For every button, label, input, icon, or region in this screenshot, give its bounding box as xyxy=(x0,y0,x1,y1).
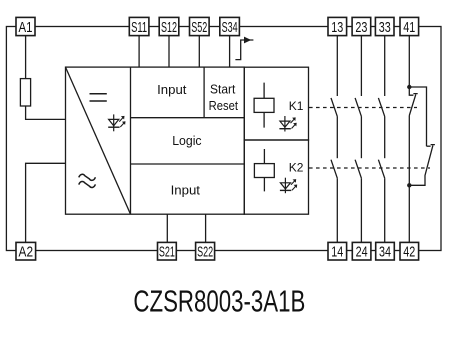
LED indicator K2 xyxy=(280,178,297,194)
fuse F1 xyxy=(20,79,30,106)
svg-text:S34: S34 xyxy=(222,20,238,36)
wire 33 down xyxy=(384,36,386,97)
NC contact K1 arm xyxy=(409,94,417,116)
terminal 23 xyxy=(352,17,371,36)
contact column 41-42 (NC) xyxy=(409,36,435,243)
terminal A1 xyxy=(16,17,35,36)
svg-text:A2: A2 xyxy=(19,245,34,261)
terminal S12 xyxy=(159,17,179,36)
terminal A2 xyxy=(16,242,36,260)
terminal 13 xyxy=(328,17,347,36)
svg-text:CZSR8003-3A1B: CZSR8003-3A1B xyxy=(133,285,305,319)
wire junction to 42 xyxy=(408,185,410,242)
contact column 23-24 xyxy=(355,36,361,243)
wire input to S21 xyxy=(166,214,168,242)
svg-text:Logic: Logic xyxy=(172,134,201,148)
LED indicator power supply xyxy=(108,114,125,131)
wire input to S22 xyxy=(205,214,207,242)
AC symbol xyxy=(79,174,96,187)
svg-text:24: 24 xyxy=(356,245,368,261)
svg-text:A1: A1 xyxy=(19,20,33,36)
contact K2 (13-14) xyxy=(331,160,337,179)
wire between contacts xyxy=(360,116,362,158)
wire S34 to start reset xyxy=(229,36,231,68)
wire power supply to A2 xyxy=(26,163,66,242)
power supply right divider xyxy=(130,67,132,214)
wire between contacts xyxy=(336,116,338,158)
branch wire to K2 NC xyxy=(409,87,426,146)
wire between contacts xyxy=(384,116,386,158)
contact column 13-14 xyxy=(331,36,337,243)
terminal 42 xyxy=(400,242,419,260)
svg-text:S11: S11 xyxy=(131,20,147,36)
wire to 14 xyxy=(336,178,338,242)
svg-text:Input: Input xyxy=(171,184,201,198)
wire 41 down xyxy=(408,36,410,88)
NC contact K2 seat xyxy=(427,145,431,147)
svg-text:S52: S52 xyxy=(191,20,207,36)
contact K1 (13-14) xyxy=(331,98,337,117)
wire S52 to start reset xyxy=(198,36,200,68)
device outline xyxy=(6,27,441,251)
DC symbol xyxy=(90,94,107,101)
contact column 33-34 xyxy=(378,36,384,243)
wire S11 to input xyxy=(138,36,140,68)
svg-text:14: 14 xyxy=(331,245,343,261)
wire 23 down xyxy=(360,36,362,97)
svg-text:K2: K2 xyxy=(289,161,304,175)
wire 13 down xyxy=(336,36,338,97)
svg-text:42: 42 xyxy=(403,245,415,261)
terminal 41 xyxy=(400,17,419,36)
wire A1 to power supply xyxy=(26,36,66,120)
svg-text:33: 33 xyxy=(379,20,391,36)
terminal S34 xyxy=(220,17,240,36)
junction dot upper xyxy=(407,85,411,89)
NC contact K1 seat xyxy=(409,87,413,95)
relay K2 box xyxy=(244,140,308,214)
terminal S21 xyxy=(158,242,177,260)
svg-text:23: 23 xyxy=(355,20,367,36)
contact K2 (23-24) xyxy=(355,160,361,179)
wire to 34 xyxy=(384,178,386,242)
junction dot lower xyxy=(407,183,411,187)
terminal S52 xyxy=(190,17,210,36)
svg-text:S12: S12 xyxy=(161,20,177,36)
K1 linkage dashed line xyxy=(309,107,417,109)
contact K1 (33-34) xyxy=(378,98,384,117)
terminal S11 xyxy=(129,17,149,36)
divider input/logic xyxy=(131,117,245,119)
svg-text:S21: S21 xyxy=(159,245,175,261)
divider logic/input xyxy=(131,163,245,165)
svg-text:Reset: Reset xyxy=(209,99,239,113)
main module box xyxy=(66,67,245,214)
divider input/start-reset xyxy=(203,67,205,118)
NC contact K2 arm xyxy=(409,145,435,186)
terminal 34 xyxy=(376,242,395,260)
LED indicator K1 xyxy=(279,116,296,132)
svg-text:41: 41 xyxy=(403,20,415,36)
terminal 33 xyxy=(375,17,394,36)
svg-text:13: 13 xyxy=(331,20,343,36)
coil K1 xyxy=(254,83,274,128)
coil K2 xyxy=(254,149,274,191)
relay K1 box xyxy=(244,67,308,140)
K2 linkage dashed line xyxy=(309,167,430,169)
contact K1 (23-24) xyxy=(355,98,361,117)
wire arm to lower junction xyxy=(408,116,410,186)
svg-text:34: 34 xyxy=(379,245,391,261)
terminal 14 xyxy=(328,242,347,260)
wire S12 to input xyxy=(168,36,170,68)
terminal 24 xyxy=(352,242,371,260)
terminal S22 xyxy=(196,242,215,260)
contact K2 (33-34) xyxy=(378,160,384,179)
power supply diagonal xyxy=(66,67,131,214)
start arrow symbol xyxy=(235,37,253,60)
svg-text:K1: K1 xyxy=(289,99,304,113)
svg-text:S22: S22 xyxy=(197,245,213,261)
svg-text:Start: Start xyxy=(210,83,236,97)
svg-text:Input: Input xyxy=(157,83,187,97)
wire to 24 xyxy=(360,178,362,242)
